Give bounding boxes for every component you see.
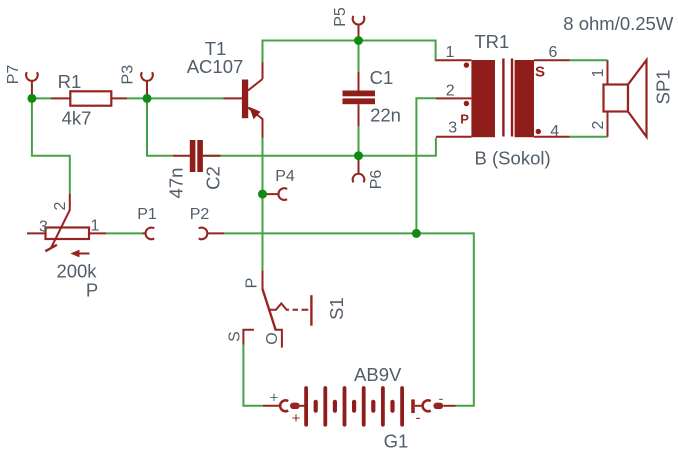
svg-text:2: 2 <box>446 83 455 100</box>
svg-text:AC107: AC107 <box>187 56 244 77</box>
svg-text:P3: P3 <box>120 65 137 85</box>
svg-text:C2: C2 <box>203 166 224 190</box>
svg-text:G1: G1 <box>384 431 409 452</box>
svg-text:6: 6 <box>549 44 558 61</box>
svg-text:P: P <box>244 278 261 289</box>
svg-text:TR1: TR1 <box>474 31 509 52</box>
svg-text:4k7: 4k7 <box>62 108 92 129</box>
svg-text:C1: C1 <box>370 67 394 88</box>
svg-text:S: S <box>227 331 244 342</box>
svg-text:P2: P2 <box>190 206 210 223</box>
svg-text:SP1: SP1 <box>653 69 674 104</box>
svg-text:P5: P5 <box>332 7 349 27</box>
svg-text:O: O <box>264 332 281 344</box>
svg-text:3: 3 <box>448 120 457 137</box>
svg-text:-: - <box>439 391 444 408</box>
svg-text:P: P <box>460 112 469 127</box>
svg-text:200k: 200k <box>56 261 97 282</box>
svg-text:3: 3 <box>39 219 48 236</box>
svg-text:2: 2 <box>52 201 69 210</box>
svg-text:1: 1 <box>590 68 607 77</box>
svg-text:P7: P7 <box>5 65 22 85</box>
svg-text:P4: P4 <box>275 168 295 185</box>
svg-text:S: S <box>535 64 545 81</box>
svg-text:-: - <box>416 410 421 427</box>
svg-text:2: 2 <box>590 120 607 129</box>
svg-text:+: + <box>270 390 279 407</box>
svg-text:1: 1 <box>446 44 455 61</box>
svg-text:22n: 22n <box>370 105 401 126</box>
svg-text:P1: P1 <box>137 206 157 223</box>
svg-text:B (Sokol): B (Sokol) <box>475 148 551 169</box>
svg-text:S1: S1 <box>326 297 347 320</box>
svg-text:R1: R1 <box>58 71 82 92</box>
svg-text:8 ohm/0.25W: 8 ohm/0.25W <box>563 13 674 34</box>
svg-text:AB9V: AB9V <box>354 364 402 385</box>
svg-text:P6: P6 <box>368 170 385 190</box>
svg-text:4: 4 <box>550 123 559 140</box>
svg-text:+: + <box>292 410 301 427</box>
svg-text:P: P <box>86 280 98 301</box>
svg-text:1: 1 <box>91 218 100 235</box>
svg-text:47n: 47n <box>166 168 187 199</box>
